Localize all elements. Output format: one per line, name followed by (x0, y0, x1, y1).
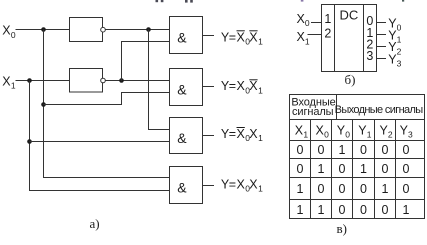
svg-text:0: 0 (360, 143, 367, 157)
table header X0 (316, 123, 330, 139)
svg-text:3: 3 (366, 49, 373, 63)
svg-text:0: 0 (324, 129, 329, 139)
svg-text:1: 1 (360, 162, 367, 176)
wire block input 2 (308, 34, 322, 36)
wire block input 1 (311, 22, 322, 24)
wire X0 to gate D2 (44, 93, 170, 105)
output label Y2 (388, 40, 401, 56)
svg-text:1: 1 (258, 86, 263, 96)
label output Y=X0 notX1 (221, 79, 263, 95)
svg-text:0: 0 (339, 182, 346, 196)
svg-text:0: 0 (382, 203, 389, 217)
cropped text remnant top-right (402, 0, 404, 2)
svg-text:X: X (237, 30, 246, 44)
svg-text:3: 3 (408, 129, 413, 139)
svg-text:1: 1 (382, 182, 389, 196)
svg-text:&: & (177, 130, 187, 146)
svg-text:0: 0 (305, 18, 310, 28)
svg-text:=: = (229, 79, 236, 93)
svg-text:0: 0 (318, 182, 325, 196)
svg-text:1: 1 (403, 203, 410, 217)
svg-text:0: 0 (382, 162, 389, 176)
label output Y=X0X1 (221, 177, 263, 193)
svg-text:X: X (249, 79, 258, 93)
svg-text:0: 0 (403, 182, 410, 196)
inverter U1 (70, 18, 106, 42)
svg-text:=: = (229, 177, 236, 191)
node X1 tap 1 (27, 78, 32, 83)
truth table grid (290, 95, 425, 219)
svg-text:3: 3 (397, 59, 402, 69)
svg-text:0: 0 (403, 162, 410, 176)
wire X1 horizontal (16, 80, 70, 82)
svg-text:а): а) (90, 216, 100, 231)
svg-text:0: 0 (318, 143, 325, 157)
AND gate D2 (170, 69, 203, 106)
svg-text:0: 0 (297, 143, 304, 157)
svg-text:1: 1 (11, 81, 16, 91)
svg-text:б): б) (345, 72, 356, 87)
table row 3 (297, 182, 410, 196)
svg-text:2: 2 (388, 129, 393, 139)
svg-text:1: 1 (297, 182, 304, 196)
wire D4 output (203, 185, 215, 187)
wire X1 to gate D3 (30, 141, 170, 143)
svg-text:X: X (249, 177, 258, 191)
wire X1 vertical bus to gate D4 (30, 81, 170, 191)
svg-text:X: X (237, 79, 246, 93)
label output Y=notX0 notX1 (221, 30, 263, 46)
svg-text:2: 2 (324, 27, 331, 41)
svg-text:1: 1 (397, 34, 402, 44)
input label X1 (block) (297, 30, 310, 46)
svg-text:в): в) (337, 221, 347, 236)
wire D1 output (203, 35, 215, 37)
svg-text:1: 1 (318, 162, 325, 176)
svg-text:1: 1 (305, 36, 310, 46)
output label Y3 (388, 53, 401, 69)
cropped text remnant top-left (156, 0, 193, 3)
node NX1 tap (119, 78, 124, 83)
wire block output 3 (377, 58, 387, 60)
table header Y2 (380, 123, 393, 139)
svg-text:0: 0 (11, 30, 16, 40)
AND gate D4 (170, 167, 203, 204)
decoder block right divider (363, 5, 365, 72)
svg-text:X: X (249, 30, 258, 44)
svg-text:1: 1 (258, 184, 263, 194)
svg-text:X: X (237, 177, 246, 191)
table header X1 (295, 123, 309, 139)
svg-text:1: 1 (303, 129, 308, 139)
svg-text:0: 0 (360, 182, 367, 196)
node X0 tap 2 (41, 102, 46, 107)
svg-text:0: 0 (382, 143, 389, 157)
svg-text:DC: DC (340, 7, 359, 22)
inverter U2 (70, 69, 106, 93)
table row 1 (297, 143, 410, 157)
svg-text:&: & (177, 179, 187, 195)
AND gate D3 (170, 118, 203, 154)
wire X0 horizontal (16, 29, 70, 31)
svg-text:0: 0 (339, 162, 346, 176)
svg-text:1: 1 (258, 37, 263, 47)
table header Y3 (400, 123, 413, 139)
node X1 tap 2 (27, 139, 32, 144)
svg-text:0: 0 (345, 129, 350, 139)
output label Y1 (388, 28, 401, 44)
wire block output 0 (377, 22, 387, 24)
wire D3 output (203, 135, 215, 137)
svg-text:0: 0 (339, 203, 346, 217)
svg-text:0: 0 (360, 203, 367, 217)
wire U2 output to gate D2 (105, 80, 169, 82)
input label X0 (2, 24, 16, 40)
cropped text remnant top-middle (301, 0, 304, 2)
svg-text:1: 1 (339, 143, 346, 157)
svg-text:2: 2 (397, 46, 402, 56)
node X0 tap 1 (41, 27, 46, 32)
wire X0 vertical bus to gate D4 (44, 30, 170, 178)
svg-text:0: 0 (403, 143, 410, 157)
wire block output 1 (377, 34, 387, 36)
wire NX0 to gate D3 (149, 30, 170, 130)
decoder block left divider (334, 5, 336, 72)
table row 2 (297, 162, 410, 176)
table header Y1 (358, 123, 371, 139)
wire D2 output (203, 86, 215, 88)
svg-text:1: 1 (258, 133, 263, 143)
svg-text:&: & (177, 29, 187, 45)
svg-text:Выходные сигналы: Выходные сигналы (335, 104, 424, 116)
svg-text:1: 1 (318, 203, 325, 217)
svg-text:1: 1 (367, 129, 372, 139)
wire NX1 to gate D1 (122, 42, 170, 81)
node NX0 tap (146, 27, 151, 32)
output label Y0 (388, 16, 401, 32)
decoder block DC outer box (322, 5, 377, 72)
svg-text:сигналы: сигналы (292, 106, 334, 118)
input label X0 (block) (297, 12, 310, 28)
svg-text:&: & (177, 81, 187, 97)
svg-text:X: X (249, 127, 258, 141)
wire U1 output to gate D1 (105, 29, 169, 31)
svg-text:0: 0 (397, 22, 402, 32)
table header inputs (291, 96, 335, 118)
svg-text:X: X (237, 127, 246, 141)
AND gate D1 (170, 17, 203, 54)
svg-text:=: = (229, 127, 236, 141)
wire block output 2 (377, 46, 387, 48)
svg-text:0: 0 (297, 162, 304, 176)
table row 4 (297, 203, 410, 217)
svg-text:1: 1 (324, 12, 331, 26)
svg-text:=: = (229, 30, 236, 44)
table header Y0 (337, 123, 350, 139)
input label X1 (2, 74, 16, 90)
label output Y=notX0 X1 (221, 127, 263, 143)
svg-text:1: 1 (297, 203, 304, 217)
